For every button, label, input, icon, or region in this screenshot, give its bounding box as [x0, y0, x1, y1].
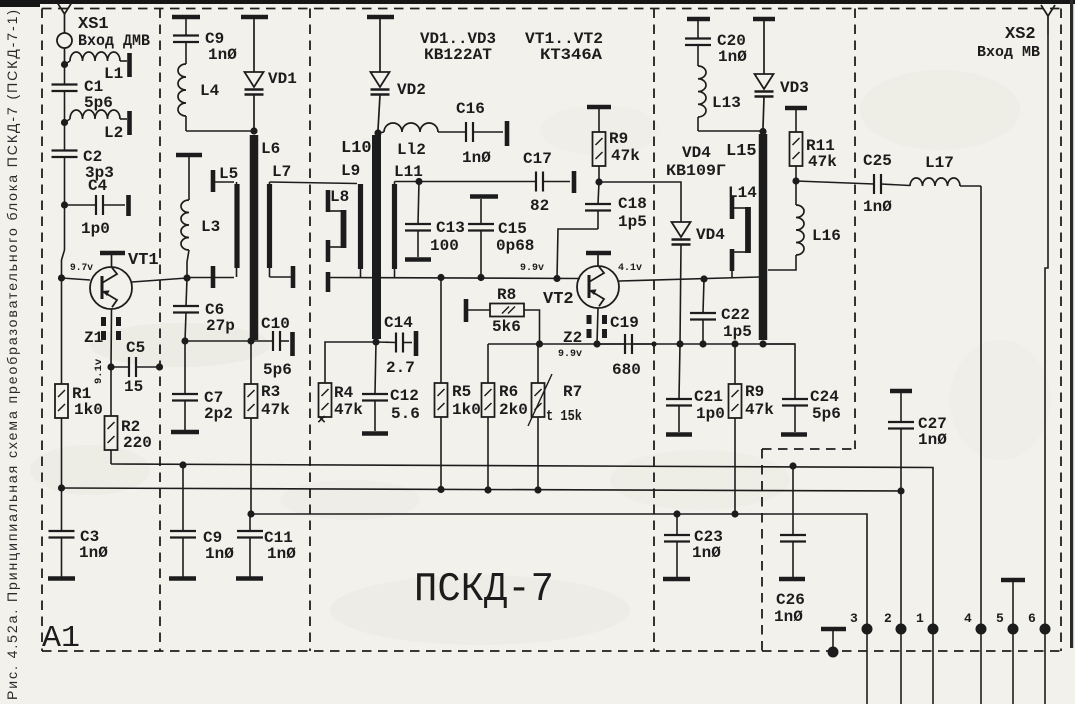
node emitter Z2 junction [593, 340, 600, 347]
varicap VD3 [763, 21, 765, 74]
capacitor C3 [61, 488, 63, 531]
node C15 bottom [477, 274, 484, 281]
ground bar C13 [405, 257, 431, 262]
transistor VT2 [577, 266, 619, 308]
svg-text:3: 3 [850, 611, 858, 626]
inductor L12 [378, 132, 384, 133]
resistor R1 [61, 278, 63, 384]
dashed section divider x654 [653, 9, 655, 652]
connector XS1 antenna [58, 3, 72, 14]
svg-text:R4: R4 [334, 384, 354, 402]
node R9 lower top [731, 340, 738, 347]
capacitor C15 [480, 199, 482, 224]
node R5 top [437, 274, 444, 281]
terminal tick L8 chassis [326, 272, 331, 292]
capacitor C27 [900, 393, 902, 422]
varicap VD1 [253, 19, 255, 72]
node VD4/C21 junction [676, 340, 683, 347]
ground bar C3 [48, 576, 75, 581]
node C14/L10 bottom [372, 338, 379, 345]
svg-text:R9: R9 [745, 383, 764, 401]
svg-text:C10: C10 [261, 315, 290, 333]
node emitter junction [107, 363, 114, 370]
scan edge top [0, 0, 1075, 4]
svg-text:47k: 47k [611, 147, 640, 165]
inductor L5 winding bar [234, 184, 239, 268]
capacitor C6 [186, 278, 187, 306]
node VD3/L15 [759, 128, 766, 135]
svg-text:t 15k: t 15k [546, 408, 582, 425]
svg-text:C12: C12 [390, 387, 419, 405]
svg-text:5p6: 5p6 [812, 405, 841, 423]
pin 3 [862, 624, 873, 635]
wire VT2 collector right [619, 277, 759, 281]
node VT2 collector / C22 [700, 275, 707, 282]
node VD2/L10/L12 [374, 129, 381, 136]
inductor L17 [910, 178, 960, 186]
svg-text:6: 6 [1028, 611, 1036, 626]
supply bus R3 line [251, 514, 867, 629]
top bar L3 [176, 153, 202, 158]
node C4 tap [61, 201, 68, 208]
capacitor C11 [249, 514, 251, 531]
svg-text:9.9v: 9.9v [558, 348, 583, 360]
capacitor C17 [535, 172, 537, 192]
svg-text:L7: L7 [272, 163, 291, 181]
top bar VD1 [241, 15, 268, 20]
svg-text:1nØ: 1nØ [208, 46, 237, 64]
capacitor C7 [184, 341, 186, 394]
svg-text:R3: R3 [261, 383, 280, 401]
terminal bar L1 [127, 53, 132, 77]
node bias wire divider [651, 341, 656, 346]
inductor L15 winding bar [759, 134, 768, 340]
wire VT1 emitter [110, 309, 113, 367]
node C5 right terminal [156, 363, 163, 370]
top bar C27 [890, 389, 912, 394]
ground bar C26 [779, 577, 805, 582]
svg-text:КВ109Г: КВ109Г [666, 162, 726, 180]
resistor R4 [319, 383, 332, 417]
svg-text:Рис. 4.52а. Принципиальная схе: Рис. 4.52а. Принципиальная схема преобра… [4, 10, 20, 700]
node L15 bottom [759, 340, 766, 347]
inductor L2 [65, 119, 71, 123]
terminal tick L5 bottom [236, 268, 238, 277]
supply bus R2 line [111, 464, 933, 629]
capacitor C13 [418, 182, 419, 225]
capacitor C20 [697, 21, 699, 38]
supply bus R1 line [62, 488, 902, 491]
svg-text:Вход ДМВ: Вход ДМВ [78, 32, 150, 50]
capacitor C1 [52, 83, 78, 85]
emitter bias wire [488, 343, 795, 345]
ground bar C12 [362, 431, 388, 436]
svg-text:1nØ: 1nØ [718, 48, 747, 66]
svg-text:Z1: Z1 [84, 329, 103, 347]
wire C14 node to R4 [325, 342, 376, 383]
node R6 bottom [484, 486, 491, 493]
svg-text:47k: 47k [745, 401, 774, 419]
wire R9 node to VD4 [599, 182, 681, 222]
terminal bar C4 [126, 195, 131, 216]
svg-text:5: 5 [996, 611, 1004, 626]
resistor R2 [110, 367, 112, 416]
top bar VD3 [753, 17, 775, 22]
svg-text:КТ346А: КТ346А [540, 46, 602, 64]
node VD1/L6 [250, 127, 257, 134]
inductor L4 [178, 64, 186, 116]
inductor L9 winding bar [358, 184, 363, 269]
svg-text:C25: C25 [863, 152, 892, 170]
dashed section divider x160 [159, 9, 161, 652]
node R9/C18 junction [595, 178, 602, 185]
svg-text:2k0: 2k0 [499, 401, 528, 419]
svg-text:L16: L16 [812, 227, 841, 245]
terminal bar R8 [464, 299, 469, 322]
svg-text:R9: R9 [609, 130, 628, 148]
svg-text:2p2: 2p2 [204, 405, 233, 423]
svg-text:5k6: 5k6 [492, 318, 521, 336]
svg-text:220: 220 [123, 434, 152, 452]
pin 5 [1008, 624, 1019, 635]
svg-text:ПСКД-7: ПСКД-7 [414, 567, 554, 613]
node R7/R8 junction [536, 340, 543, 347]
svg-text:L15: L15 [726, 142, 757, 161]
wire L17 to pin4 [980, 186, 982, 629]
bar above pin5 [1001, 578, 1025, 583]
node L3/C6 junction [183, 274, 190, 281]
svg-text:×: × [317, 412, 326, 429]
svg-text:C21: C21 [694, 388, 723, 406]
svg-text:КВ122АТ: КВ122АТ [424, 46, 492, 64]
node C23 top [673, 510, 680, 517]
svg-text:680: 680 [612, 361, 641, 379]
terminal bar C14 [414, 331, 419, 356]
node C27 bus junction [897, 487, 904, 494]
ground bar C7 [171, 430, 199, 435]
pin 1 [928, 624, 939, 635]
svg-text:L1: L1 [104, 65, 123, 83]
svg-text:VD2: VD2 [397, 81, 426, 99]
capacitor C25 [873, 174, 875, 194]
svg-text:1k0: 1k0 [74, 401, 103, 419]
ground bar C9 bottom [169, 576, 196, 581]
node C26 top [789, 462, 796, 469]
wire VT1 collector right [132, 278, 187, 282]
node C22 bottom [699, 340, 706, 347]
svg-text:R7: R7 [563, 383, 582, 401]
resistor R9 upper [598, 109, 600, 132]
capacitor C23 [676, 514, 678, 535]
inductor L13 [698, 66, 706, 117]
svg-text:9.7v: 9.7v [70, 262, 94, 274]
svg-text:1p0: 1p0 [81, 220, 110, 238]
svg-text:А1: А1 [42, 621, 80, 656]
node R11/L16 [792, 177, 799, 184]
svg-text:R8: R8 [497, 286, 516, 304]
pin 6 [1040, 624, 1051, 635]
ground bar C24 [781, 432, 807, 437]
svg-text:C24: C24 [810, 388, 839, 406]
capacitor C14 [376, 341, 396, 344]
node C9b junction [179, 461, 186, 468]
resistor R11 [795, 110, 797, 132]
svg-text:Вход МВ: Вход МВ [977, 44, 1040, 61]
resistor R7 [537, 344, 539, 383]
svg-text:Ll2: Ll2 [397, 141, 426, 159]
svg-text:1nØ: 1nØ [205, 545, 234, 563]
svg-text:9.1v: 9.1v [93, 358, 105, 384]
varicap VD2 [379, 19, 381, 72]
svg-text:15: 15 [124, 378, 143, 396]
dashed section divider right (jog) [854, 9, 856, 450]
node VT1 base junction [58, 274, 65, 281]
transistor VT1 [90, 267, 132, 309]
resistor R3 [250, 341, 252, 384]
svg-text:4.1v: 4.1v [618, 262, 643, 274]
top bar C20 [687, 17, 710, 22]
wire L7 top to L9 [269, 182, 271, 185]
svg-text:VD4: VD4 [682, 144, 711, 162]
terminal dot ground [828, 647, 839, 658]
capacitor C17 wire [419, 181, 536, 183]
wire C6-L6 node [185, 340, 251, 342]
dashed section divider x310 [309, 9, 311, 652]
wire L13 to VD3 node [698, 130, 763, 132]
node R3 bottom [247, 510, 254, 517]
capacitor C2 [52, 149, 78, 151]
node L2 tap [61, 119, 68, 126]
node R1 bottom junction [58, 484, 65, 491]
ferrite bead Z1 [101, 317, 106, 326]
svg-text:27p: 27p [206, 317, 235, 335]
varicap VD4 [672, 222, 691, 237]
svg-text:L5: L5 [219, 165, 238, 183]
resistor R5 [440, 278, 442, 384]
svg-text:1k0: 1k0 [452, 401, 481, 419]
capacitor C9 bottom [182, 465, 184, 531]
wire L4 to VD1 node [186, 130, 254, 132]
collector shield bar VT2 [586, 251, 611, 256]
inductor L16 [795, 181, 797, 205]
capacitor C10 [251, 340, 273, 342]
svg-text:Z2: Z2 [563, 329, 582, 347]
inductor L6 winding bar [250, 135, 259, 340]
svg-text:L17: L17 [925, 154, 954, 172]
svg-text:C13: C13 [436, 219, 465, 237]
svg-text:1nØ: 1nØ [918, 431, 947, 449]
ferrite bead Z2 [587, 315, 592, 324]
scan edge right [1070, 0, 1073, 648]
capacitor C16 [465, 122, 467, 142]
ground bar C21 [666, 432, 692, 437]
svg-text:1nØ: 1nØ [774, 608, 803, 626]
svg-text:XS2: XS2 [1005, 25, 1036, 44]
capacitor C18 [598, 182, 599, 204]
top bar C15 [470, 194, 498, 199]
svg-text:4: 4 [964, 611, 972, 626]
terminal tick L7 bottom [269, 268, 271, 277]
node R9 lower bottom [731, 510, 738, 517]
svg-text:1nØ: 1nØ [863, 198, 892, 216]
capacitor C19 [597, 343, 625, 345]
svg-text:C17: C17 [523, 150, 552, 168]
svg-text:C26: C26 [776, 591, 805, 609]
pin 2 [896, 624, 907, 635]
svg-text:C15: C15 [498, 220, 527, 238]
svg-text:47k: 47k [261, 401, 290, 419]
terminal bar L2 [127, 111, 132, 135]
svg-text:R6: R6 [499, 383, 518, 401]
terminal bar C16 [505, 121, 510, 146]
resistor R8 [468, 309, 490, 311]
ground bar C23 [663, 577, 690, 582]
top bar R11 [785, 106, 807, 111]
wire C2-C4 [64, 157, 66, 205]
capacitor C12 [375, 342, 376, 394]
svg-text:L9: L9 [341, 162, 360, 180]
wire C1-L2 [64, 91, 66, 150]
inductor L10 winding bar [372, 135, 381, 339]
capacitor C21 [679, 344, 680, 399]
ground terminal near pins [821, 627, 846, 632]
svg-text:C5: C5 [126, 339, 145, 357]
svg-text:1p5: 1p5 [723, 323, 752, 341]
capacitor C4 [65, 204, 97, 206]
svg-text:C22: C22 [721, 306, 750, 324]
wire C18 to base bus [557, 229, 598, 279]
wire L11 bottom [394, 269, 396, 278]
wire XS1 down [64, 62, 66, 85]
svg-text:C4: C4 [88, 177, 108, 195]
top bar C9 [172, 15, 200, 20]
svg-text:0p68: 0p68 [496, 237, 534, 255]
svg-text:L4: L4 [200, 82, 220, 100]
capacitor C9 top [185, 19, 187, 35]
svg-text:L13: L13 [712, 94, 741, 112]
base bus wire [328, 278, 580, 279]
svg-text:L10: L10 [341, 139, 372, 158]
inductor L8 tapped winding [326, 190, 331, 212]
node L1 tap [61, 61, 68, 68]
top bar VD2 [367, 15, 394, 20]
svg-text:L3: L3 [201, 218, 220, 236]
svg-text:1nØ: 1nØ [692, 544, 721, 562]
node L6 bottom [247, 337, 254, 344]
inductor L3 [188, 157, 190, 200]
svg-text:47k: 47k [808, 153, 837, 171]
svg-text:R5: R5 [452, 383, 471, 401]
svg-text:L6: L6 [261, 140, 280, 158]
svg-text:VD1: VD1 [268, 70, 297, 88]
svg-text:1p0: 1p0 [696, 405, 725, 423]
wire bias to C24 [763, 344, 795, 399]
svg-text:1p5: 1p5 [618, 213, 647, 231]
wire L11 top to C17 node [394, 182, 396, 185]
capacitor C24 [782, 398, 808, 400]
terminal bar C17 [572, 171, 577, 193]
node R7 bottom [534, 486, 541, 493]
svg-text:2.7: 2.7 [386, 359, 415, 377]
svg-text:C16: C16 [456, 100, 485, 118]
svg-text:VT1: VT1 [128, 251, 159, 270]
svg-text:5.6: 5.6 [391, 405, 420, 423]
node C18 base junction [553, 275, 560, 282]
svg-text:100: 100 [430, 237, 459, 255]
svg-text:82: 82 [530, 197, 549, 215]
svg-text:C14: C14 [384, 314, 413, 332]
wire XS2 to pin6 [1045, 34, 1048, 629]
svg-text:C18: C18 [618, 195, 647, 213]
svg-text:2: 2 [884, 611, 892, 626]
top bar R9 [587, 105, 611, 110]
node C17 junction [415, 178, 422, 185]
terminal tick L5 top [211, 170, 216, 192]
capacitor C5 [111, 366, 129, 368]
inductor L14 tapped winding [730, 197, 735, 219]
svg-text:1nØ: 1nØ [462, 149, 491, 167]
svg-text:1: 1 [916, 611, 924, 626]
svg-text:47k: 47k [334, 401, 363, 419]
dashed enclosure A1 border [42, 8, 1061, 10]
wire C4 node to VT1 base [64, 205, 66, 250]
inductor L11 winding bar [392, 184, 397, 269]
wire base to VT1 [62, 278, 91, 280]
node C6 bottom junction [181, 337, 188, 344]
svg-text:1nØ: 1nØ [79, 544, 108, 562]
pin 4 [976, 624, 987, 635]
wire L9 bottom [360, 269, 362, 278]
svg-text:VD4: VD4 [696, 226, 725, 244]
node R5 bottom [437, 486, 444, 493]
resistor R6 [487, 344, 489, 383]
capacitor C26 [792, 466, 794, 535]
capacitor C22 [703, 279, 704, 313]
svg-text:L8: L8 [330, 188, 349, 206]
wire R11 node to C25 [796, 181, 874, 184]
svg-text:VT2: VT2 [543, 290, 574, 309]
svg-text:9.9v: 9.9v [520, 262, 545, 274]
svg-text:1nØ: 1nØ [267, 545, 296, 563]
wire VT2 emitter [597, 308, 598, 344]
svg-text:VD3: VD3 [780, 79, 809, 97]
svg-text:L14: L14 [728, 184, 757, 202]
resistor R9 lower [734, 344, 736, 384]
collector shield bar VT1 [100, 251, 125, 256]
terminal bar C10 [290, 332, 295, 356]
connector XS2 antenna [1041, 5, 1055, 16]
svg-text:5p6: 5p6 [263, 361, 292, 379]
svg-text:C19: C19 [610, 314, 639, 332]
inductor L1 [65, 61, 71, 65]
ground bar C11 [236, 576, 263, 581]
inductor L7 winding bar [267, 184, 272, 268]
svg-text:L2: L2 [104, 124, 123, 142]
